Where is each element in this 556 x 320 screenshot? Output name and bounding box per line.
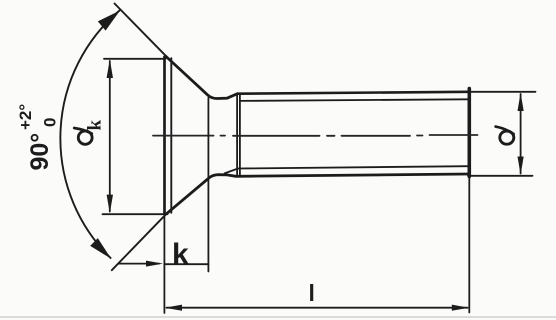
dk bottom extension line — [103, 213, 168, 215]
dk top extension line — [104, 58, 166, 60]
dk arrowhead top — [107, 59, 113, 78]
svg-text:90°: 90° — [26, 133, 54, 171]
d top extension line — [469, 91, 536, 93]
svg-text:l: l — [309, 280, 315, 306]
d arrowhead top — [518, 93, 524, 111]
svg-text:k: k — [172, 238, 189, 271]
svg-text:k: k — [85, 120, 106, 131]
k dimension line between extension lines — [164, 263, 208, 265]
90deg cone extension line top — [115, 4, 167, 57]
l arrowhead right — [452, 305, 469, 311]
label 90deg +2/0 — [16, 104, 60, 171]
d arrowhead bottom — [518, 157, 524, 175]
90deg arc arrowhead top — [98, 11, 120, 31]
k dimension arrow line (outside left) — [118, 263, 159, 265]
label dk (hand-drawn round italic d with subscript k) — [74, 120, 105, 145]
full thread boundary vertical line 2 — [239, 94, 241, 176]
svg-text:+2°: +2° — [16, 104, 35, 130]
thread root line bottom — [238, 166, 468, 168]
screw head top cone face with neck fillet and thread run-out — [166, 57, 237, 99]
k arrowhead pointing right — [146, 261, 163, 267]
d dimension line — [520, 94, 522, 174]
k/l shared left extension line — [163, 216, 165, 313]
l right extension line (continuation of end face) — [468, 176, 470, 313]
thread run-out diagonal bottom — [225, 169, 239, 174]
label d (hand-drawn round italic d) — [496, 127, 514, 145]
full thread boundary vertical line 1 — [236, 94, 238, 176]
screw head bottom cone face continuing into shank bottom outer line — [166, 174, 468, 214]
90deg dimension arc — [60, 11, 119, 259]
90deg cone extension line bottom — [112, 214, 167, 270]
thread root line top — [240, 99, 468, 101]
dk arrowhead bottom — [107, 195, 113, 214]
d bottom extension line — [468, 175, 533, 177]
faint scan line at bottom — [0, 316, 556, 318]
screw head left face inner edge line — [170, 58, 172, 213]
screw head left face (outer thick line) — [163, 57, 166, 214]
k right extension line — [207, 98, 209, 272]
shank end face vertical line — [467, 89, 471, 177]
90deg arc arrowhead bottom — [90, 238, 111, 259]
shank top outer (crest) line — [238, 92, 469, 94]
l dimension line — [167, 307, 468, 309]
svg-text:0: 0 — [41, 118, 60, 127]
l arrowhead left — [165, 305, 182, 311]
dk dimension line — [109, 61, 111, 212]
centerline dash-dot — [153, 134, 478, 137]
